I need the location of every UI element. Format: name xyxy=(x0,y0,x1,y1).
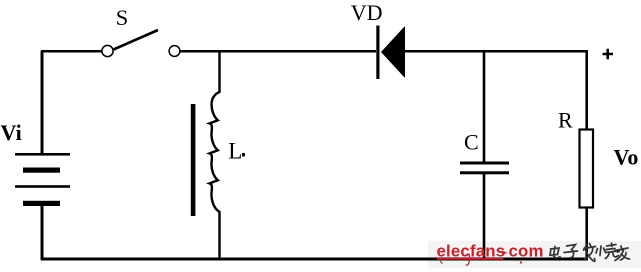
battery Vi: bottom short thick plate xyxy=(23,201,60,206)
svg-text:com: com xyxy=(509,242,544,261)
svg-text:VD: VD xyxy=(351,0,383,25)
wire: left vertical rail from top wire down to battery top plate xyxy=(41,51,44,153)
wire: right vertical rail from top corner down to resistor xyxy=(585,50,588,130)
wire: battery bottom stub down to bottom rail xyxy=(41,206,44,260)
switch S: left contact circle xyxy=(102,45,113,56)
switch S: lever arm xyxy=(114,30,159,50)
label L period xyxy=(242,153,245,156)
switch S: right contact circle xyxy=(169,46,180,57)
diode VD: cathode bar xyxy=(376,26,379,80)
battery Vi: lower long plate xyxy=(15,185,70,188)
capacitor C: top plate xyxy=(460,162,509,165)
watermark: elecfans.com logo (red) xyxy=(437,242,544,266)
wire: top horizontal from diode to top-right corner xyxy=(404,50,588,53)
svg-text:Vo: Vo xyxy=(614,145,639,170)
watermark: Chinese characters 电子发烧友 (hand-drawn, gray) xyxy=(550,243,630,261)
wire: capacitor bottom lead to bottom rail xyxy=(483,173,486,259)
inductor L: winding (lead + 4 left scallops with cusps) xyxy=(210,50,220,259)
battery Vi: top long plate xyxy=(15,153,70,156)
wire: capacitor top lead from top wire to top plate xyxy=(483,51,486,163)
svg-text:Vi: Vi xyxy=(1,120,22,145)
svg-text:C: C xyxy=(464,129,479,154)
wire: top horizontal from switch right contact to diode cathode bar xyxy=(180,50,376,53)
resistor R: body rectangle xyxy=(580,130,594,208)
char: 烧 xyxy=(596,243,619,259)
char: 电 xyxy=(550,247,560,259)
battery Vi: upper short thick plate xyxy=(23,168,60,173)
char: 发 xyxy=(584,244,596,262)
wire: top-left horizontal from left rail to switch left contact xyxy=(41,50,102,53)
diode VD: triangle (pointing left) xyxy=(381,26,405,78)
char: 子 xyxy=(564,245,578,258)
svg-text:R: R xyxy=(558,107,573,132)
svg-text:S: S xyxy=(116,5,129,30)
svg-text:L: L xyxy=(228,138,242,163)
wire: resistor bottom lead down to bottom rail xyxy=(585,207,588,259)
capacitor C: bottom plate xyxy=(460,171,509,174)
watermark background tint strip xyxy=(428,241,641,268)
label + (output polarity) xyxy=(603,49,614,60)
wire: bottom rail xyxy=(41,258,588,261)
inductor L: core bar xyxy=(191,104,196,216)
svg-text:elecfans: elecfans xyxy=(437,242,506,261)
char: 友 xyxy=(615,246,630,261)
